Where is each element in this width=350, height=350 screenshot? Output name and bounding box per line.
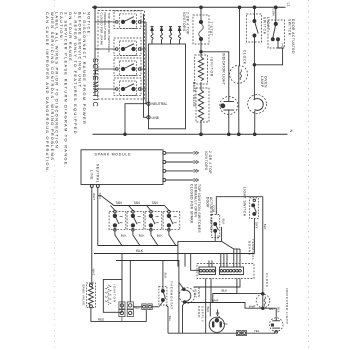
ground symbol xyxy=(216,310,220,318)
labels TAN xyxy=(116,201,159,205)
node T'STAT rail junction xyxy=(200,6,203,9)
wire bake valve RED xyxy=(91,308,146,322)
svg-text:LAMP: LAMP xyxy=(260,76,264,88)
clock motor M1 (schematic) xyxy=(230,50,248,83)
wires switch outputs to BLK bus xyxy=(115,231,176,246)
wire rail to light switch xyxy=(254,7,256,20)
oven ignitor (wiring) xyxy=(103,280,122,313)
ignition switch S1 xyxy=(95,11,146,29)
connectors RED at thermostat xyxy=(142,302,163,310)
svg-text:LIGHT: LIGHT xyxy=(193,287,197,299)
bake valve coil (schematic) xyxy=(192,82,209,122)
wire bake valve to rail xyxy=(200,120,203,136)
svg-text:BLK: BLK xyxy=(263,224,267,230)
top ignition switches S1-S4 outer box xyxy=(98,11,145,100)
oven ignitor (schematic) xyxy=(195,55,214,84)
svg-text:BLK: BLK xyxy=(136,249,143,253)
BLK bus 2 xyxy=(94,253,254,255)
svg-text:INDICATOR LIGHT: INDICATOR LIGHT xyxy=(285,288,289,324)
svg-text:SWITCH: SWITCH xyxy=(262,17,266,35)
wire WHT spark module to bake valve xyxy=(92,188,96,286)
svg-text:NEUTRAL: NEUTRAL xyxy=(152,102,168,106)
svg-text:WHT: WHT xyxy=(212,298,219,302)
label ignition switches (wiring) xyxy=(190,184,201,233)
svg-text:CORD: CORD xyxy=(197,306,201,318)
wire door switch bottom xyxy=(214,232,216,241)
clock motor (wiring) xyxy=(256,292,270,309)
terminal LINE xyxy=(147,116,160,120)
wire door switch to oven lamp xyxy=(254,41,282,65)
svg-text:COM: COM xyxy=(271,9,275,17)
oven lamp (schematic) xyxy=(248,65,268,114)
svg-text:BLK: BLK xyxy=(276,307,280,313)
svg-text:N: N xyxy=(225,322,227,326)
supply cord plug P1 xyxy=(209,317,224,332)
svg-text:BAKE VALVE: BAKE VALVE xyxy=(192,82,196,107)
svg-text:IGNITOR: IGNITOR xyxy=(210,57,214,77)
connectors on bottom wire xyxy=(236,331,246,336)
svg-text:INDICATOR LIGHT: INDICATOR LIGHT xyxy=(221,53,225,85)
label terminal board xyxy=(248,239,256,261)
node light switch rail junction xyxy=(253,6,256,9)
svg-text:YEL: YEL xyxy=(168,316,172,322)
svg-text:CLOSED FOR SPARK: CLOSED FOR SPARK xyxy=(190,184,194,224)
svg-text:WHT: WHT xyxy=(269,307,275,311)
wire rail to tstat xyxy=(200,7,202,20)
thermostat (wiring) xyxy=(159,286,167,305)
wire oven light to bottom xyxy=(183,303,185,334)
wire light switch to lamp junction xyxy=(253,37,256,66)
wire thermostat BLK riser xyxy=(163,261,168,290)
wire clock to rail xyxy=(237,66,240,136)
svg-text:RED: RED xyxy=(98,317,105,321)
ignitor lead 2 xyxy=(160,27,163,44)
ignitor lead 3 xyxy=(169,27,172,44)
ignitor lead 4 xyxy=(178,27,181,44)
svg-text:IGNITOR: IGNITOR xyxy=(113,285,117,303)
neutral rail N xyxy=(93,133,288,135)
page fold dotted line right xyxy=(308,0,310,350)
ignition switch S3 xyxy=(95,58,146,76)
wire light switch BLK to clock xyxy=(263,197,267,309)
spark module U1 (schematic) xyxy=(149,44,186,129)
wire indicator to rail xyxy=(227,110,230,136)
wire rail to clock xyxy=(239,7,241,66)
label 2 or 4 top ignitors (schematic) xyxy=(182,12,190,35)
wire door to light switch feed xyxy=(216,197,262,215)
svg-text:CAN CAUSE IMPROPER AND DANGERO: CAN CAUSE IMPROPER AND DANGEROUS OPERATI… xyxy=(45,12,50,173)
svg-text:BLK: BLK xyxy=(157,234,163,238)
svg-text:CLOCK: CLOCK xyxy=(265,273,269,288)
bake valve (wiring) xyxy=(87,283,96,308)
svg-text:BLK: BLK xyxy=(139,234,145,238)
svg-text:WHT: WHT xyxy=(92,193,96,200)
wire left drop xyxy=(94,7,96,96)
wire thermostat YEL xyxy=(166,305,172,333)
terminal board TB1 xyxy=(197,264,254,279)
wire clock to indicator xyxy=(263,308,276,317)
svg-text:LINE: LINE xyxy=(90,170,94,180)
wire TAN spark module to switch row xyxy=(98,188,102,246)
connector stack B xyxy=(127,302,133,317)
svg-text:WHT: WHT xyxy=(92,269,96,276)
notice text block xyxy=(45,12,91,173)
wire ignitor to bake valve xyxy=(200,82,202,90)
wire light switch GRY to bus2 xyxy=(254,219,258,254)
wire stack B to thermostat connectors xyxy=(133,306,142,308)
spark module U1 (wiring view) xyxy=(81,150,163,188)
ignition switch S2 xyxy=(95,38,146,56)
thermostat T'STAT (schematic) xyxy=(193,15,213,44)
wire branch to indicator light xyxy=(201,52,229,98)
wire risers to connector stacks xyxy=(122,254,130,302)
label top ignition switches xyxy=(100,13,111,53)
svg-text:BAKE VALVE: BAKE VALVE xyxy=(81,285,85,306)
door actuated switch (schematic) xyxy=(268,20,285,48)
page fold dotted line left xyxy=(54,0,56,350)
label 2 or 4 top ignitors (wiring) xyxy=(204,151,212,174)
ignition switch S4 (wiring) xyxy=(163,210,180,231)
svg-text:TAN: TAN xyxy=(134,201,141,205)
svg-text:CLOSED FOR SPARK: CLOSED FOR SPARK xyxy=(100,13,104,46)
connector stack A xyxy=(119,302,125,322)
wires buses into terminal board xyxy=(185,241,240,270)
svg-text:CLOCK: CLOCK xyxy=(243,50,247,65)
svg-text:WHT: WHT xyxy=(249,305,256,309)
node junction below tstat xyxy=(200,41,203,57)
wire rail to door switch COM xyxy=(275,7,277,23)
wire oven lamp to rail xyxy=(253,111,256,136)
wire bus to door switch run xyxy=(178,227,222,267)
label door actuated switch xyxy=(287,19,295,54)
svg-text:NEUTRAL: NEUTRAL xyxy=(96,164,100,183)
node door switch rail junction xyxy=(274,6,277,9)
wire TAN feeder xyxy=(98,196,169,211)
door actuated switch (wiring) xyxy=(212,215,221,240)
svg-text:BLK: BLK xyxy=(206,307,210,313)
bottom wire run xyxy=(168,332,275,333)
label supply cord xyxy=(197,306,205,323)
svg-text:T'STAT: T'STAT xyxy=(209,22,213,37)
spark module ignitor lead terminals xyxy=(163,151,199,181)
svg-text:TAN: TAN xyxy=(116,201,123,205)
junction dot left rail xyxy=(94,6,97,9)
BLK bus 1 xyxy=(98,245,178,247)
ignition switch S2 (wiring) xyxy=(127,210,144,231)
svg-text:YEL: YEL xyxy=(254,329,260,333)
ignition switch S1 (wiring) xyxy=(109,210,126,231)
svg-text:SPARK MODULE: SPARK MODULE xyxy=(95,153,132,157)
svg-text:SWITCH: SWITCH xyxy=(287,19,291,36)
indicator light (wiring) xyxy=(269,317,283,333)
svg-text:NC: NC xyxy=(281,44,285,48)
svg-text:BOARD: BOARD xyxy=(248,241,252,256)
oven light (wiring) xyxy=(179,283,195,304)
svg-text:THERMOSTAT: THERMOSTAT xyxy=(169,281,173,310)
svg-text:TAN: TAN xyxy=(152,201,159,205)
BLK bus 3 xyxy=(116,261,179,334)
svg-text:LIGHT SWITCH: LIGHT SWITCH xyxy=(243,187,247,217)
light switch (wiring) xyxy=(250,198,259,219)
svg-text:ACTUATED SWITCH: ACTUATED SWITCH xyxy=(209,197,213,232)
svg-text:DOOR: DOOR xyxy=(205,197,209,208)
label N at plug xyxy=(223,322,227,326)
terminal NEUTRAL xyxy=(147,102,168,106)
label oven light xyxy=(193,287,201,299)
wire switch bank to LINE terminal xyxy=(144,14,147,117)
svg-text:RED: RED xyxy=(134,306,140,310)
wires terminal board to lower right components xyxy=(186,279,263,334)
node clock rail junction xyxy=(238,6,241,9)
svg-text:BLK: BLK xyxy=(222,219,226,225)
svg-text:IGNITORS: IGNITORS xyxy=(182,12,186,32)
svg-text:L1: L1 xyxy=(286,3,290,7)
svg-text:LINE: LINE xyxy=(152,116,160,120)
L1 rail xyxy=(92,6,286,8)
svg-text:IGNITORS: IGNITORS xyxy=(204,151,208,171)
svg-text:NC: NC xyxy=(216,236,220,240)
labels BLK under switches xyxy=(121,234,163,238)
wire neutral to rail xyxy=(124,104,147,136)
svg-text:BLK: BLK xyxy=(222,288,228,292)
wire switch bank to NEUTRAL terminal xyxy=(145,22,147,104)
svg-text:BLK: BLK xyxy=(164,273,168,279)
svg-text:N: N xyxy=(289,130,293,133)
indicator light DS1 (schematic) xyxy=(220,53,238,115)
wire supply BLK drop xyxy=(209,303,211,317)
ignition switch S3 (wiring) xyxy=(145,210,162,231)
ignition switch S4 xyxy=(95,78,146,96)
svg-text:GRY: GRY xyxy=(254,222,258,229)
oven light switch (schematic) xyxy=(247,14,270,42)
ignitor lead 1 xyxy=(150,27,153,44)
label door actuated switch (wiring) xyxy=(205,197,213,232)
svg-text:BLK: BLK xyxy=(121,234,127,238)
